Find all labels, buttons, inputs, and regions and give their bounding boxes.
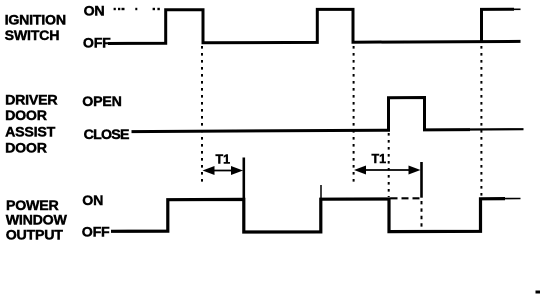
svg-text:DRIVER: DRIVER	[5, 93, 57, 109]
svg-text:DOOR: DOOR	[5, 108, 47, 124]
svg-text:OPEN: OPEN	[82, 94, 121, 110]
svg-text:ON: ON	[84, 3, 105, 19]
svg-text:CLOSE: CLOSE	[84, 127, 129, 143]
svg-text:T1: T1	[216, 153, 231, 167]
svg-text:OFF: OFF	[83, 36, 111, 52]
svg-text:ASSIST: ASSIST	[5, 124, 55, 140]
svg-text:OFF: OFF	[82, 225, 110, 241]
svg-text:T1: T1	[372, 152, 387, 166]
svg-text:ON: ON	[82, 193, 103, 209]
svg-text:IGNITION: IGNITION	[5, 13, 66, 29]
svg-text:OUTPUT: OUTPUT	[6, 227, 64, 243]
svg-text:SWITCH: SWITCH	[5, 28, 60, 44]
svg-text:POWER: POWER	[6, 198, 59, 214]
svg-text:WINDOW: WINDOW	[6, 213, 68, 229]
svg-text:DOOR: DOOR	[5, 140, 47, 156]
